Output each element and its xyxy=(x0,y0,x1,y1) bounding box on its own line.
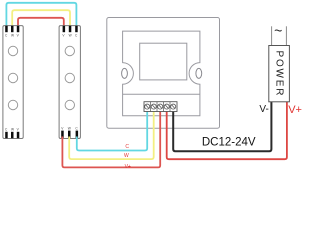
svg-text:V-: V- xyxy=(259,104,268,115)
svg-text:V+: V+ xyxy=(125,164,131,170)
LED strip 1 LED circles xyxy=(8,46,17,109)
LED strip 1 bottom pin labels xyxy=(5,128,20,132)
wire cyan strip2 bottom pin3 to panel terminal 1 (C) xyxy=(77,111,147,151)
svg-text:W: W xyxy=(69,34,72,38)
terminal screw 5 xyxy=(171,104,176,109)
panel right mounting slot hole xyxy=(196,68,202,78)
LED strip 1 bottom connector pins xyxy=(5,132,19,138)
svg-text:W: W xyxy=(11,128,14,132)
LED strip 2 body xyxy=(59,26,80,139)
terminal block xyxy=(144,102,177,112)
svg-text:DC12-24V: DC12-24V xyxy=(202,136,256,148)
LED strip 1 top pin labels xyxy=(5,34,20,38)
terminal screw 3 xyxy=(158,104,163,109)
LED strip 2 bottom connector pins xyxy=(61,131,78,138)
wire red strip2 bottom pin1 to panel terminal 3 (V+) xyxy=(62,111,160,168)
wire red strip1-pin3 to strip2-pin1 (top link) xyxy=(18,18,64,27)
LED strip 1 body xyxy=(3,26,23,139)
svg-text:C: C xyxy=(125,144,129,150)
wire black panel terminal 5 to power supply V- xyxy=(173,102,271,151)
wire cyan strip1-pin1 to strip2-pin3 (top link) xyxy=(6,3,76,27)
LED strip 2 LED circles xyxy=(65,46,74,109)
terminal screw 2 xyxy=(151,104,156,109)
power supply AC prong left xyxy=(271,26,273,45)
panel wall plate xyxy=(107,18,220,129)
panel module outline with mounting ear arcs xyxy=(123,31,200,116)
LED strip 2 bottom pin labels xyxy=(61,127,78,131)
svg-text:W: W xyxy=(11,34,14,38)
wire red panel terminal 4 to power supply V+ xyxy=(167,102,287,159)
svg-text:W: W xyxy=(124,153,129,159)
svg-text:POWER: POWER xyxy=(274,51,285,98)
LED strip 2 top pin labels xyxy=(62,34,78,38)
svg-text:~: ~ xyxy=(274,22,282,38)
svg-text:W: W xyxy=(68,127,71,131)
power supply box xyxy=(269,46,290,102)
wire yellow strip2 bottom pin2 to panel terminal 2 (W) xyxy=(69,111,154,160)
panel divider line xyxy=(123,93,200,95)
terminal screw 4 xyxy=(164,104,169,109)
wire yellow strip1-pin2 to strip2-pin2 (top link) xyxy=(12,10,70,27)
LED strip 2 top connector pins xyxy=(63,26,78,32)
panel left mounting slot hole xyxy=(122,68,128,78)
svg-text:V+: V+ xyxy=(288,104,302,116)
terminal screw 1 xyxy=(145,104,150,109)
panel display window xyxy=(140,43,187,80)
power supply AC prong right xyxy=(285,26,287,45)
LED strip 1 top connector pins xyxy=(5,26,19,32)
